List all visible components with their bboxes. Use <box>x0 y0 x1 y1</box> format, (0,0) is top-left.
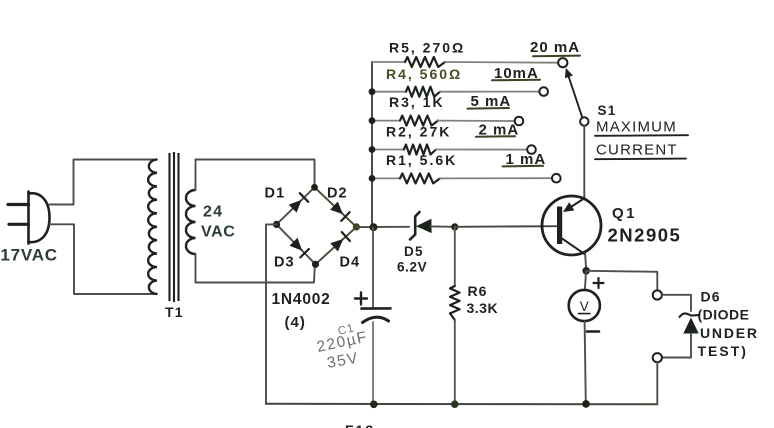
label S1 <box>598 103 617 118</box>
label R3, 1K <box>389 94 445 110</box>
label 20mA <box>530 39 580 56</box>
underline 1mA <box>503 165 544 168</box>
label 2N2905 <box>608 225 682 246</box>
svg-text:V: V <box>580 299 589 314</box>
wire bottom rail (negative bus) <box>266 403 657 406</box>
label - below voltmeter <box>587 330 599 333</box>
junction bridge right node <box>353 223 360 230</box>
resistor R5 <box>405 57 445 67</box>
wire lower terminal to rail <box>656 362 658 404</box>
label 10mA <box>494 65 539 82</box>
svg-text:(4): (4) <box>285 314 306 331</box>
wire bus to resistor R2 <box>372 149 404 151</box>
label R2, 27K <box>386 124 451 140</box>
wire R6 to rail <box>454 320 456 404</box>
switch contact 20mA <box>558 58 567 67</box>
junction bus at R1 <box>369 175 376 182</box>
label T1 <box>165 304 184 320</box>
svg-text:T1: T1 <box>165 304 184 320</box>
switch contact 1mA <box>552 174 561 183</box>
svg-text:D1: D1 <box>265 186 286 202</box>
svg-text:3.3K: 3.3K <box>467 300 499 316</box>
wire node to R6 <box>454 227 456 286</box>
svg-text:TEST): TEST) <box>698 343 748 359</box>
svg-text:R4, 560Ω: R4, 560Ω <box>386 66 462 82</box>
lower test terminal <box>653 353 662 362</box>
junction bridge bottom node <box>312 261 319 268</box>
wire collector node to upper test terminal <box>586 271 657 290</box>
wire bus to resistor R1 <box>372 177 400 179</box>
label R5, 270Ω <box>389 40 465 56</box>
diode D6 (under test) <box>683 318 698 334</box>
junction bus-D5-C1 node <box>370 223 378 231</box>
transformer T1 core <box>170 152 179 302</box>
wire bus to resistor R5 <box>372 61 405 63</box>
transistor Q1 body <box>542 196 601 255</box>
wire node to C1 top plate <box>372 227 374 308</box>
label R1, 5.6K <box>386 152 457 168</box>
svg-text:R3, 1K: R3, 1K <box>389 94 445 110</box>
label 220uF (pencil) <box>315 329 369 356</box>
label 5mA <box>471 93 512 110</box>
svg-text:117VAC: 117VAC <box>0 246 58 265</box>
underline CURRENT <box>595 158 686 161</box>
label D4 <box>340 255 361 271</box>
wire positive bus vertical <box>371 62 373 228</box>
wire bus to resistor R3 <box>372 120 400 122</box>
wire voltmeter to rail <box>585 321 586 404</box>
voltmeter M1 body <box>569 290 600 321</box>
junction bus at R4 <box>369 88 376 95</box>
upper test terminal <box>653 290 662 299</box>
zener diode D5 <box>410 212 432 240</box>
wire resistor R4 to contact <box>440 91 539 93</box>
wire upper terminal to D6 <box>662 295 691 311</box>
label D6 <box>701 289 721 305</box>
svg-text:R1, 5.6K: R1, 5.6K <box>386 152 457 168</box>
switch S1 arrowhead <box>565 68 573 78</box>
svg-text:D3: D3 <box>274 255 295 271</box>
wire bridge left node to ground rail <box>266 224 277 403</box>
underline 5mA <box>468 107 510 110</box>
wire node to voltmeter <box>585 271 586 290</box>
wire D5 anode to node <box>431 225 455 227</box>
switch S1 arm <box>567 71 583 118</box>
label CURRENT <box>596 142 678 159</box>
capacitor C1 bottom plate <box>363 317 389 322</box>
wire plug top to primary top <box>50 160 158 205</box>
label (DIODE <box>698 307 750 323</box>
diode D6 cathode bar <box>680 313 700 317</box>
junction bridge top node <box>311 184 318 191</box>
junction voltmeter at rail <box>582 400 590 408</box>
wire D6 to lower terminal <box>662 334 691 358</box>
diode D3 (bridge, left node to bottom node) <box>290 238 309 258</box>
underline 2mA <box>476 135 515 138</box>
wire resistor R2 to contact <box>436 149 527 151</box>
wire bridge edge top-right <box>315 187 357 227</box>
partial figure caption (clipped) <box>345 422 375 428</box>
junction C1 at rail <box>370 401 378 409</box>
underline 20mA <box>533 55 580 58</box>
label 2mA <box>479 122 520 139</box>
svg-text:D4: D4 <box>340 255 361 271</box>
wire resistor R1 to contact <box>440 177 552 179</box>
wire bridge edge left-bottom <box>277 224 316 264</box>
voltmeter V symbol <box>579 299 591 314</box>
svg-text:D2: D2 <box>327 186 348 202</box>
label D3 <box>274 255 295 271</box>
diode D2 (bridge, top node to right node) <box>330 202 350 221</box>
junction bridge left node <box>273 221 280 228</box>
svg-text:2N2905: 2N2905 <box>608 225 682 246</box>
svg-text:R6: R6 <box>468 283 488 299</box>
junction bus at R2 <box>369 146 376 153</box>
wire resistor R3 to contact <box>438 120 514 122</box>
svg-text:(DIODE: (DIODE <box>698 307 750 323</box>
resistor R2 <box>404 145 436 155</box>
diode D1 (bridge, left node to top node) <box>289 193 309 212</box>
wire node to Q1 base <box>455 225 558 228</box>
capacitor C1 top plate <box>362 307 391 310</box>
resistor R3 <box>400 116 438 126</box>
label D1 <box>265 186 286 202</box>
svg-text:CURRENT: CURRENT <box>596 142 678 159</box>
underline 10mA <box>492 79 540 82</box>
wire C1 bottom plate to rail <box>372 322 374 404</box>
wire resistor R5 to contact <box>445 61 558 64</box>
wire Q1 collector to node <box>585 255 586 271</box>
label 1mA <box>506 151 547 168</box>
label 1N4002 (4) <box>272 291 331 331</box>
label TEST) <box>698 343 748 359</box>
transistor Q1 emitter <box>563 199 584 213</box>
junction bus at R3 <box>369 117 376 124</box>
label 35V (pencil) <box>326 350 361 372</box>
wire bridge right node to bus <box>356 226 373 228</box>
label Q1 <box>612 205 637 222</box>
svg-text:MAXIMUM: MAXIMUM <box>596 119 677 136</box>
label UNDER <box>700 325 759 341</box>
label R6 <box>468 283 488 299</box>
svg-text:D5: D5 <box>404 244 424 259</box>
junction R6 at rail <box>451 400 459 408</box>
label D5 <box>404 244 424 259</box>
svg-text:R2, 27K: R2, 27K <box>386 124 451 140</box>
transistor Q1 base bar <box>557 207 562 245</box>
junction D5-R6 node <box>451 223 458 230</box>
svg-text:F13: F13 <box>345 422 375 428</box>
C1 polarity + <box>355 293 367 305</box>
svg-text:D6: D6 <box>701 289 721 305</box>
label 6.2V <box>397 260 427 275</box>
underline MAXIMUM <box>595 134 688 137</box>
label D2 <box>327 186 348 202</box>
label + at collector node <box>594 278 604 288</box>
wire secondary bottom to bridge bottom node <box>196 254 315 283</box>
label 117VAC <box>0 246 58 265</box>
svg-text:UNDER: UNDER <box>700 325 759 341</box>
svg-text:R5, 270Ω: R5, 270Ω <box>389 40 465 56</box>
svg-text:1N4002: 1N4002 <box>272 291 331 308</box>
svg-text:S1: S1 <box>598 103 617 118</box>
resistor R1 <box>400 173 440 183</box>
svg-text:24: 24 <box>203 204 223 221</box>
transformer T1 primary winding <box>148 160 157 295</box>
wire bus to resistor R4 <box>372 91 406 93</box>
svg-text:20 mA: 20 mA <box>530 39 580 56</box>
svg-text:6.2V: 6.2V <box>397 260 427 275</box>
svg-text:Q1: Q1 <box>612 205 637 222</box>
wire bridge edge left-top <box>277 187 315 224</box>
label 3.3K <box>467 300 499 316</box>
junction collector node <box>582 267 590 275</box>
wire plug bottom to primary bottom <box>50 224 158 294</box>
wire S1 pivot to Q1 emitter <box>583 126 585 199</box>
label C1 (pencil) <box>337 322 356 338</box>
resistor R6 <box>450 286 460 320</box>
label 24 VAC <box>201 204 235 241</box>
label MAXIMUM <box>596 119 677 136</box>
diode D4 (bridge, bottom node to right node) <box>330 232 350 251</box>
wire bridge edge bottom-right <box>316 227 357 264</box>
label R4, 560Ω <box>386 66 462 82</box>
wire bus to D5 cathode <box>374 226 410 228</box>
switch contact 5mA <box>515 117 524 126</box>
svg-text:VAC: VAC <box>201 224 235 241</box>
transistor Q1 collector <box>563 239 586 255</box>
AC plug (117 VAC line input) <box>8 192 50 244</box>
resistor R4 <box>406 87 440 97</box>
transformer T1 secondary winding <box>186 190 196 254</box>
wire secondary top to bridge top node <box>196 160 315 191</box>
switch contact 2mA <box>527 145 536 154</box>
switch contact 10mA <box>539 87 548 96</box>
switch S1 pivot <box>580 117 588 125</box>
